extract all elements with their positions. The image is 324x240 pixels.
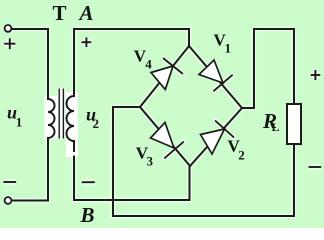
svg-text:1: 1 — [225, 41, 232, 56]
svg-text:3: 3 — [147, 154, 154, 169]
svg-text:A: A — [77, 1, 93, 25]
svg-text:B: B — [79, 203, 94, 227]
svg-text:1: 1 — [16, 115, 23, 130]
svg-text:2: 2 — [93, 116, 100, 131]
svg-text:L: L — [272, 120, 280, 134]
svg-text:2: 2 — [238, 148, 245, 163]
svg-text:4: 4 — [145, 57, 152, 72]
svg-text:T: T — [52, 1, 66, 25]
